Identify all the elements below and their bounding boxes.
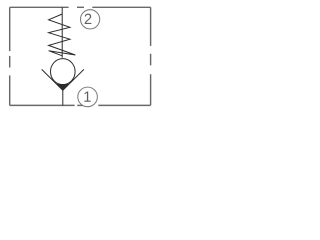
wire top border dash <box>77 6 84 8</box>
wire right border segment bottom <box>150 74 152 105</box>
wire right border dash <box>150 54 152 66</box>
wire top border segment left <box>10 6 69 8</box>
poppet ball <box>51 59 76 85</box>
port 2 label "2" <box>85 14 92 24</box>
wire poppet to port 1 <box>62 90 64 105</box>
port 2 circle <box>81 10 100 29</box>
wire left border segment top <box>9 7 11 51</box>
spring <box>49 14 76 56</box>
wire bottom border segment right <box>98 104 150 106</box>
wire bottom border segment left <box>10 104 75 106</box>
cartridge envelope (dashed boundary) <box>10 7 151 105</box>
port 1 circle <box>78 87 98 107</box>
valve internals <box>42 7 84 105</box>
seat triangle fill <box>57 84 70 90</box>
valve seat V <box>42 69 84 90</box>
wire left border dash <box>9 56 11 68</box>
wire left border segment bottom <box>9 75 11 105</box>
wire bottom border dash <box>77 104 84 106</box>
wire spring stem <box>61 7 63 58</box>
wire right border segment top <box>150 7 152 46</box>
port 1 label "1" <box>84 92 90 102</box>
wire top border segment right <box>92 6 150 8</box>
